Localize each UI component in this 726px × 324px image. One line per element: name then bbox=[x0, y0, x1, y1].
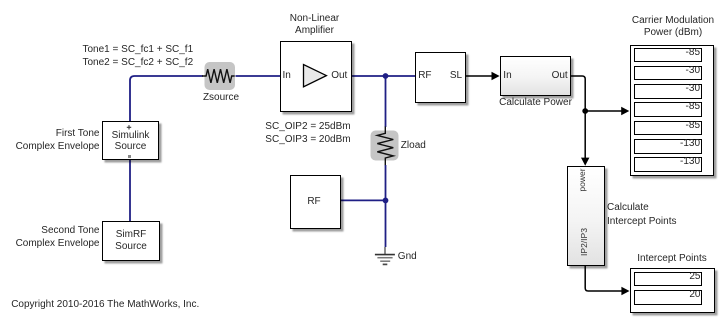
junction node RF-Zload-ground bbox=[383, 198, 389, 204]
wire RF-SL-to-CalculatePower bbox=[466, 72, 500, 81]
wire junction-to-CarrierDisplay bbox=[585, 107, 629, 116]
label Zload bbox=[401, 140, 426, 153]
block RF resistor-box bbox=[290, 175, 341, 229]
block Non-Linear Amplifier bbox=[280, 41, 352, 112]
pin SL bbox=[450, 71, 462, 81]
junction node amp-out branch bbox=[383, 73, 389, 79]
pin IP2/IP3 rotated bbox=[579, 212, 589, 272]
ground Gnd symbol bbox=[375, 247, 395, 264]
block Calculate Power bbox=[500, 56, 571, 96]
pin Out Calculate Power bbox=[552, 71, 568, 81]
display Carrier Modulation Power scope bbox=[630, 45, 714, 176]
label Intercept Points bbox=[622, 253, 722, 266]
label Carrier Modulation Power bbox=[623, 15, 723, 39]
wire amp-out-to-RF-SL bbox=[352, 75, 415, 77]
value box -130 second bbox=[634, 157, 702, 172]
wire IP2IP3-to-InterceptDisplay bbox=[585, 266, 629, 295]
wire source-up-to-Zsource bbox=[130, 76, 203, 121]
wire RF-to-junction bbox=[341, 199, 386, 201]
display Intercept Points scope bbox=[630, 268, 715, 313]
value box -130 bbox=[634, 139, 702, 154]
label Gnd bbox=[398, 251, 417, 264]
value box -85 bbox=[634, 48, 702, 63]
value box -85 third bbox=[634, 121, 702, 136]
pin power rotated bbox=[577, 150, 587, 210]
pin RF bbox=[418, 71, 431, 81]
wire Zload-to-ground bbox=[385, 165, 387, 247]
block Calculate Intercept Points IP2/IP3 bbox=[567, 166, 605, 266]
value box 25 bbox=[634, 272, 703, 286]
resistor Zsource body bbox=[205, 62, 236, 90]
resistor Zload body bbox=[371, 131, 399, 161]
port minus-mark Simulink Source bbox=[128, 155, 131, 158]
wire junction-down-to-Zload bbox=[385, 76, 387, 127]
value box -85 second bbox=[634, 102, 702, 117]
label Second Tone Complex Envelope bbox=[5, 225, 100, 251]
junction node power-branch bbox=[582, 108, 588, 114]
label First Tone Complex Envelope bbox=[5, 128, 100, 154]
resistor Zsource zigzag bbox=[202, 69, 235, 83]
wire source-bottom-to-SimRF bbox=[129, 160, 131, 221]
pin In Calculate Power bbox=[503, 71, 511, 81]
pin Out amplifier bbox=[331, 71, 347, 81]
annotation OIP values bbox=[265, 121, 350, 147]
label Zsource bbox=[191, 92, 251, 105]
label Calculate Intercept Points bbox=[607, 201, 676, 228]
resistor Zload zigzag bbox=[377, 127, 393, 166]
label Calculate Power bbox=[490, 97, 581, 110]
block RF-SL converter bbox=[415, 52, 466, 103]
block SimRF Source bbox=[102, 221, 160, 261]
wire CalculatePower-out-down-to-IP2IP3 bbox=[571, 76, 589, 166]
pin In amplifier bbox=[283, 71, 291, 81]
wire Zsource-to-amplifier bbox=[236, 75, 281, 77]
annotation copyright bbox=[11, 299, 199, 312]
label Non-Linear Amplifier bbox=[275, 13, 355, 37]
value box -30 second bbox=[634, 84, 702, 99]
value box -30 bbox=[634, 66, 702, 81]
value box 20 bbox=[634, 290, 703, 305]
annotation tone equations bbox=[83, 44, 194, 70]
block Simulink Source bbox=[102, 121, 159, 161]
